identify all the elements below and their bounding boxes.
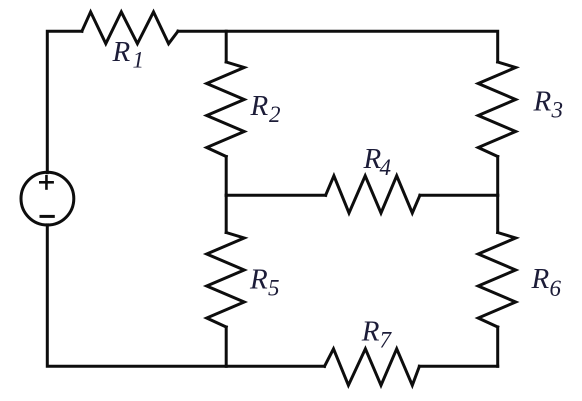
label R5	[249, 264, 280, 301]
svg-text:R: R	[250, 90, 269, 122]
voltage source V1 body	[21, 172, 74, 225]
svg-text:2: 2	[269, 102, 281, 127]
resistor R3	[478, 62, 516, 157]
wire: R5 top stub from middle node	[225, 195, 228, 232]
wire: bottom rail right, from bottom-right corner to R7	[419, 365, 497, 368]
wire: R6 top stub from middle-right node	[496, 195, 499, 232]
resistor R7	[325, 349, 420, 386]
svg-text:R: R	[531, 263, 550, 295]
label R4	[363, 143, 392, 180]
label R3	[533, 85, 564, 122]
wire: middle rail left, from R2/R5 node to R4	[226, 194, 325, 197]
svg-text:R: R	[249, 264, 268, 296]
resistor R1	[82, 12, 178, 44]
label R7	[361, 315, 393, 352]
resistor R2	[207, 62, 245, 157]
wire: middle rail right, from R4 to right rail	[420, 194, 498, 197]
resistor R5	[207, 233, 245, 328]
svg-text:R: R	[533, 85, 552, 117]
wire: top rail from R1 to top-right corner, down to R3	[178, 31, 498, 62]
resistor R4	[326, 176, 420, 213]
resistor R6	[478, 233, 516, 328]
voltage source V1 plus sign	[40, 176, 52, 188]
wire: R5 bottom stub to bottom rail	[225, 327, 228, 366]
wire: R2 bottom stub to middle node	[225, 157, 228, 196]
wire: R2 top stub from top rail	[225, 31, 228, 62]
wire: bottom rail left, from R7 to voltage source - terminal	[47, 225, 324, 366]
label R2	[250, 90, 281, 127]
wire: R6 bottom stub to bottom-right corner	[496, 327, 499, 366]
svg-text:5: 5	[268, 276, 280, 301]
label R6	[531, 263, 562, 301]
svg-text:R: R	[361, 315, 380, 347]
svg-text:7: 7	[380, 327, 393, 352]
label R1	[112, 36, 145, 73]
svg-text:6: 6	[550, 276, 562, 301]
wire: R3 bottom stub to middle-right node	[496, 157, 499, 196]
svg-text:R: R	[112, 36, 131, 68]
svg-text:4: 4	[380, 155, 392, 180]
voltage source V1 minus sign	[41, 215, 53, 218]
wire: left rail top, voltage source + terminal up and over to R1	[47, 31, 82, 172]
svg-text:1: 1	[133, 48, 145, 73]
svg-text:3: 3	[551, 97, 564, 122]
